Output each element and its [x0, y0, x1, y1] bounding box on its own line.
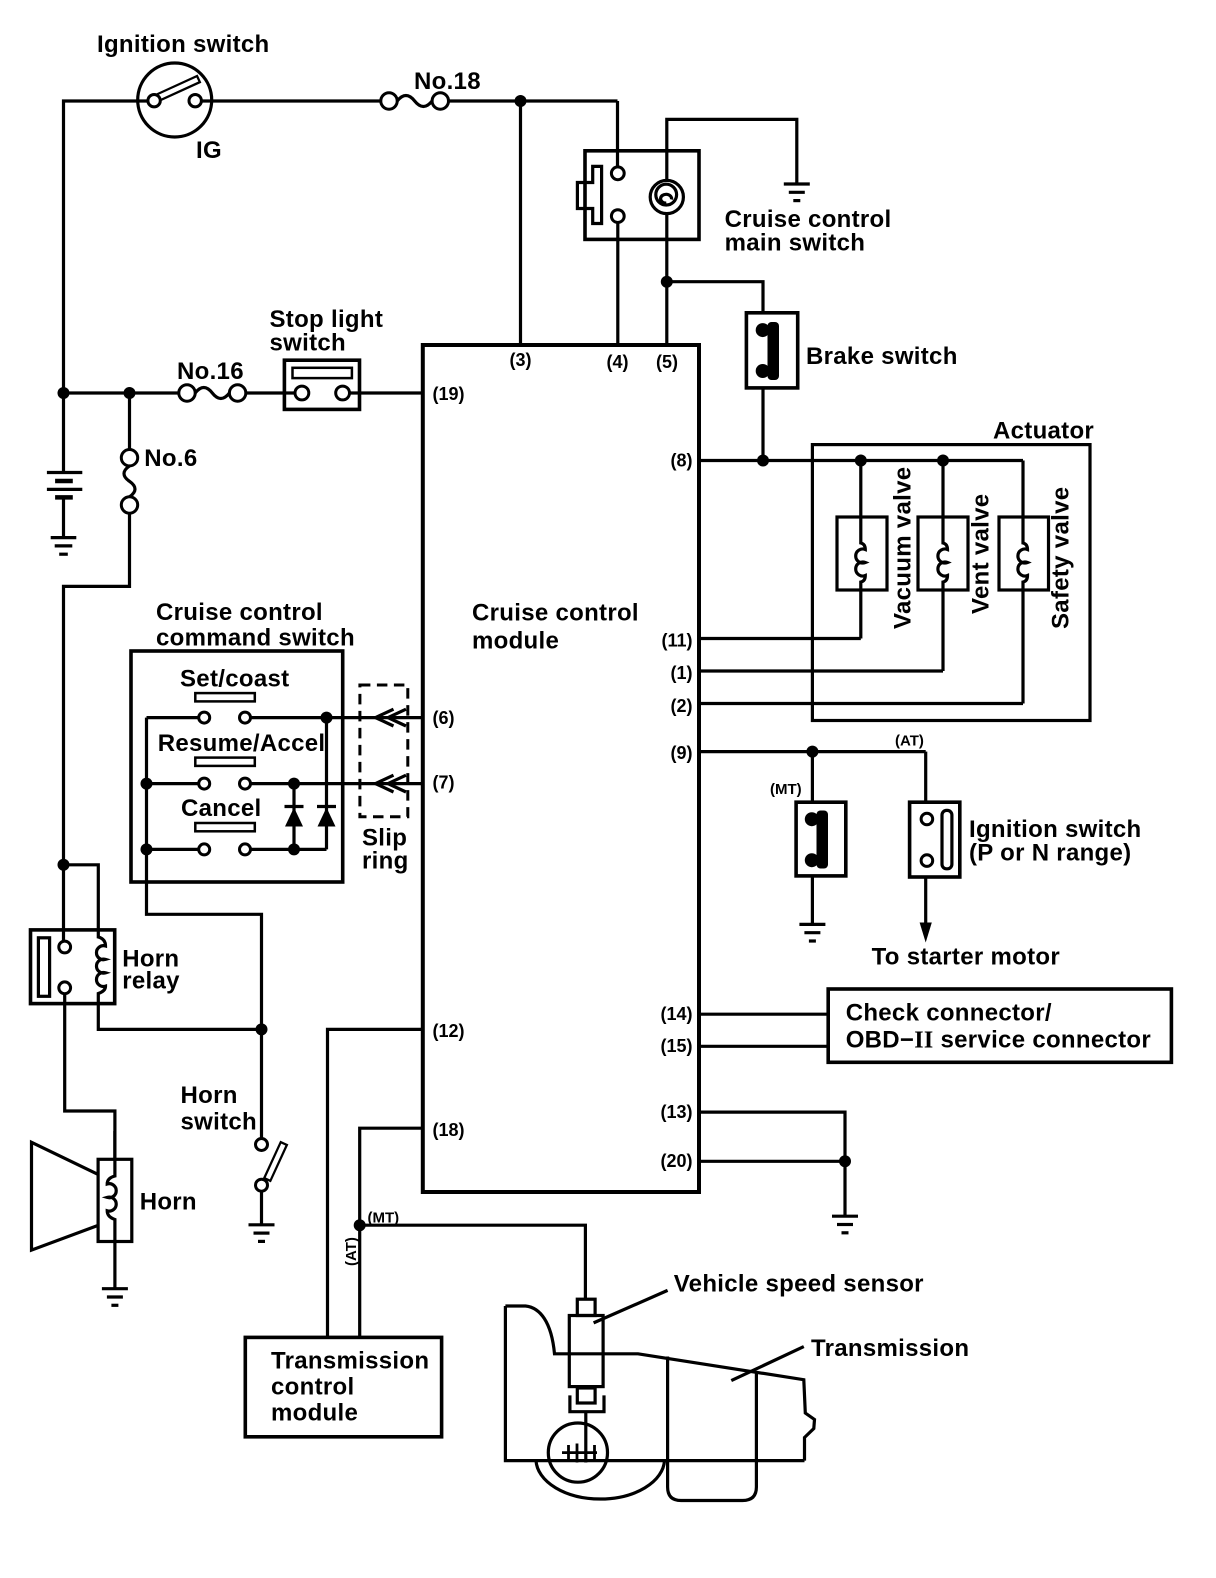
wire fuse No.18 to node A	[449, 99, 618, 102]
node O junction left riser to horn relay	[58, 859, 70, 871]
svg-text:module: module	[271, 1400, 358, 1427]
wire pin12 to TCM	[328, 1029, 423, 1337]
stop light switch box	[284, 360, 359, 409]
brake switch box	[746, 313, 797, 388]
PN switch terminal bottom	[921, 855, 933, 867]
svg-text:Horn: Horn	[140, 1189, 197, 1216]
vehicle speed sensor cap	[577, 1299, 595, 1315]
wire pin14	[699, 1013, 828, 1016]
svg-text:Transmission: Transmission	[811, 1335, 969, 1362]
svg-text:Vent valve: Vent valve	[968, 494, 995, 614]
resume contact left	[199, 778, 210, 789]
wire AT branch to PN switch	[924, 752, 927, 803]
svg-text:(AT): (AT)	[343, 1237, 360, 1266]
wire horn to ground	[113, 1242, 116, 1289]
svg-text:ring: ring	[362, 848, 409, 875]
cancel button bar	[195, 823, 255, 831]
transmission bell arc	[536, 1461, 665, 1499]
slip ring chevrons pin7	[376, 775, 407, 792]
cruise control main switch box	[585, 151, 699, 240]
svg-text:Horn: Horn	[181, 1082, 238, 1109]
node A junction at top	[515, 95, 527, 107]
ignition switch P or N box	[910, 802, 960, 877]
wire relay coil to horn switch	[98, 1004, 261, 1030]
leader line vehicle speed sensor	[594, 1290, 668, 1323]
wire pin11	[699, 637, 861, 640]
wire junction down to relay contact	[62, 865, 65, 941]
svg-text:Set/coast: Set/coast	[180, 666, 289, 693]
vehicle speed sensor neck	[577, 1388, 595, 1403]
resume contact right	[240, 778, 251, 789]
svg-text:command switch: command switch	[156, 625, 355, 652]
svg-text:relay: relay	[122, 968, 180, 995]
resume button bar	[195, 758, 255, 766]
svg-text:(7): (7)	[433, 773, 455, 793]
ground G3 MT switch	[799, 924, 825, 941]
wire pin18 to junction	[360, 1128, 423, 1337]
node E junction brake/pin8	[757, 455, 769, 467]
vent valve box	[918, 517, 968, 590]
safety valve box	[999, 517, 1049, 590]
wire left bus to fuse No.16	[64, 391, 179, 394]
vehicle speed sensor body	[569, 1316, 603, 1387]
svg-text:No.6: No.6	[144, 445, 197, 472]
svg-text:Vehicle speed sensor: Vehicle speed sensor	[674, 1271, 924, 1298]
wire pin3 riser	[519, 101, 522, 345]
svg-text:Brake switch: Brake switch	[806, 343, 958, 370]
svg-text:(4): (4)	[607, 352, 629, 372]
wire fuse No.16 to stop light switch	[246, 391, 295, 394]
svg-text:No.16: No.16	[177, 358, 244, 385]
svg-text:Transmission: Transmission	[271, 1348, 429, 1375]
svg-text:(8): (8)	[671, 451, 693, 471]
stop light switch terminal left	[295, 386, 309, 400]
node D junction No.6 tap	[124, 387, 136, 399]
wire row1 right to pin6	[251, 716, 423, 719]
wire MT branch	[811, 752, 814, 803]
svg-text:(14): (14)	[660, 1004, 692, 1024]
svg-text:Resume/Accel: Resume/Accel	[158, 730, 326, 757]
ground G6 horn	[102, 1289, 128, 1306]
svg-text:Safety valve: Safety valve	[1048, 487, 1075, 629]
ignition switch terminal left	[148, 95, 160, 107]
node H junction MT branch	[806, 746, 818, 758]
battery B1	[47, 473, 82, 538]
wire fuse No.6 down and left	[64, 513, 130, 865]
slip ring chevrons pin6	[376, 709, 407, 726]
transmission outline top	[505, 1306, 814, 1461]
set/coast contact right	[240, 712, 251, 723]
svg-text:(13): (13)	[660, 1102, 692, 1122]
main switch terminal bottom	[611, 210, 624, 223]
wire pin4 riser into main switch	[616, 101, 619, 168]
svg-text:(19): (19)	[433, 384, 465, 404]
svg-text:(AT): (AT)	[895, 733, 924, 750]
ground G4 module	[832, 1216, 858, 1233]
main switch terminal top	[611, 167, 624, 180]
horn relay contact top	[59, 941, 71, 953]
ground G2 battery	[51, 538, 77, 555]
wire row3 right	[251, 848, 327, 851]
wire pin13	[699, 1112, 845, 1161]
horn relay box	[31, 930, 115, 1004]
node M junction diode1 bottom	[288, 843, 300, 855]
node F junction vacuum valve	[855, 455, 867, 467]
wire row1 left	[147, 716, 199, 719]
wire pin4 lower riser	[616, 223, 619, 346]
wire pin20	[699, 1160, 845, 1163]
check connector box	[828, 989, 1171, 1062]
node J junction diode2 top	[321, 712, 333, 724]
left bus of command switch	[147, 718, 262, 1139]
wire row2 right to pin7	[251, 782, 423, 785]
transmission divider	[666, 1357, 669, 1461]
cruise control module box	[423, 345, 699, 1192]
svg-text:switch: switch	[270, 330, 346, 357]
node L junction left bus row2	[141, 778, 153, 790]
svg-text:(MT): (MT)	[770, 781, 802, 798]
wire pin1	[699, 669, 943, 672]
node Q junction MT/AT split	[354, 1219, 366, 1231]
wire horn switch to ground	[260, 1191, 263, 1225]
leader line transmission	[731, 1347, 804, 1381]
wire MT switch to ground	[811, 876, 814, 925]
main switch connector key glyph	[577, 166, 601, 223]
fuse No.16	[179, 385, 195, 401]
MT switch contact glyph	[817, 811, 829, 869]
PN switch terminal top	[921, 813, 933, 825]
svg-text:Actuator: Actuator	[993, 418, 1094, 445]
svg-text:main switch: main switch	[725, 230, 866, 257]
node N junction left bus row3	[141, 843, 153, 855]
svg-text:(5): (5)	[656, 352, 678, 372]
svg-text:Check connector/: Check connector/	[846, 1000, 1052, 1027]
cancel contact right	[240, 844, 251, 855]
svg-text:module: module	[472, 628, 559, 655]
svg-text:(2): (2)	[671, 696, 693, 716]
node I junction pin13/pin20	[839, 1155, 851, 1167]
wire pin8 to actuator	[699, 459, 1023, 462]
gear circle	[548, 1423, 607, 1482]
svg-text:(11): (11)	[661, 630, 692, 650]
wire node I to ground	[843, 1161, 846, 1216]
safety valve coil	[1018, 461, 1028, 704]
wire pin5 riser from lamp	[665, 214, 668, 345]
svg-text:No.18: No.18	[414, 68, 481, 95]
slip ring dashed box	[360, 685, 408, 817]
wire row2 left	[147, 782, 199, 785]
horn switch contact bottom	[256, 1179, 268, 1191]
wire junction to relay coil	[64, 865, 99, 931]
wire ignition switch to fuse No.18	[202, 99, 381, 102]
vacuum valve coil	[856, 461, 866, 639]
horn box	[98, 1159, 132, 1241]
wire brake switch to pin8 line	[761, 388, 764, 461]
wire relay contact down to horn	[65, 994, 115, 1160]
PN switch slot	[942, 810, 952, 868]
svg-text:(18): (18)	[433, 1120, 465, 1140]
node C junction left bus	[58, 387, 70, 399]
transmission control module box	[245, 1337, 441, 1436]
svg-text:(15): (15)	[660, 1036, 692, 1056]
horn speaker cone	[32, 1142, 99, 1250]
diode D1	[292, 784, 295, 850]
horn coil	[107, 1131, 116, 1242]
wire pin15	[699, 1045, 828, 1048]
node K junction diode1 top	[288, 778, 300, 790]
svg-text:control: control	[271, 1374, 354, 1401]
wire pin9	[699, 750, 926, 753]
svg-text:Cruise control: Cruise control	[472, 600, 639, 627]
svg-text:Cancel: Cancel	[181, 795, 262, 822]
wire row3 left	[147, 848, 199, 851]
stop light switch slot	[293, 368, 352, 378]
diode D2	[325, 718, 328, 850]
stop light switch terminal right	[336, 386, 350, 400]
gear glyph	[562, 1444, 597, 1463]
vent valve coil	[938, 461, 948, 672]
wire top bus from left riser to ignition switch	[64, 101, 149, 393]
wire pin19	[350, 391, 423, 394]
svg-text:Ignition switch: Ignition switch	[97, 31, 270, 58]
transmission outline left and bottom	[505, 1306, 804, 1461]
svg-text:(20): (20)	[660, 1151, 692, 1171]
horn relay contact bottom	[59, 982, 71, 994]
MT switch box	[796, 802, 846, 876]
sensor shaft	[584, 1412, 587, 1463]
ground G1 main switch	[784, 184, 810, 201]
svg-text:(3): (3)	[510, 350, 532, 370]
ignition switch terminal right	[189, 95, 201, 107]
set/coast button bar	[195, 693, 255, 701]
horn relay slot	[38, 938, 49, 997]
brake switch contact glyph	[768, 322, 780, 380]
svg-text:(12): (12)	[433, 1021, 465, 1041]
cruise control command switch box	[131, 651, 343, 882]
node G junction vent valve	[937, 455, 949, 467]
horn relay coil	[96, 930, 105, 1004]
svg-text:To starter motor: To starter motor	[872, 944, 1060, 971]
ignition switch lever	[158, 79, 200, 98]
svg-text:IG: IG	[196, 137, 222, 164]
main switch lamp	[650, 180, 683, 213]
svg-text:Cruise control: Cruise control	[156, 599, 323, 626]
wire to starter motor with arrow	[924, 877, 927, 936]
svg-text:(9): (9)	[671, 743, 693, 763]
horn switch contact top	[256, 1139, 268, 1151]
set/coast contact left	[199, 712, 210, 723]
svg-text:(6): (6)	[433, 708, 455, 728]
ground G5 horn switch	[249, 1225, 275, 1242]
fuse No.6	[128, 393, 131, 450]
svg-text:(1): (1)	[671, 663, 693, 683]
ignition switch S1 circle	[138, 63, 212, 137]
vehicle speed sensor bracket	[570, 1395, 604, 1411]
wire junction to vehicle speed sensor	[360, 1225, 586, 1299]
horn switch lever	[267, 1143, 285, 1181]
actuator box	[812, 445, 1090, 721]
transmission pan	[668, 1373, 757, 1501]
fuse No.18	[381, 93, 397, 109]
svg-text:switch: switch	[181, 1109, 257, 1136]
node P junction horn switch	[256, 1023, 268, 1035]
svg-text:Vacuum valve: Vacuum valve	[890, 467, 917, 629]
wire pin2	[699, 702, 1023, 705]
wire node B to brake switch	[667, 282, 763, 313]
svg-text:OBD−II service connector: OBD−II service connector	[846, 1027, 1151, 1054]
svg-text:(P or N range): (P or N range)	[969, 840, 1131, 867]
node B junction on pin5 wire	[661, 276, 673, 288]
wire lamp to ground branch	[667, 119, 797, 184]
vacuum valve box	[837, 517, 887, 590]
wire left bus to battery	[62, 393, 65, 473]
cancel contact left	[199, 844, 210, 855]
